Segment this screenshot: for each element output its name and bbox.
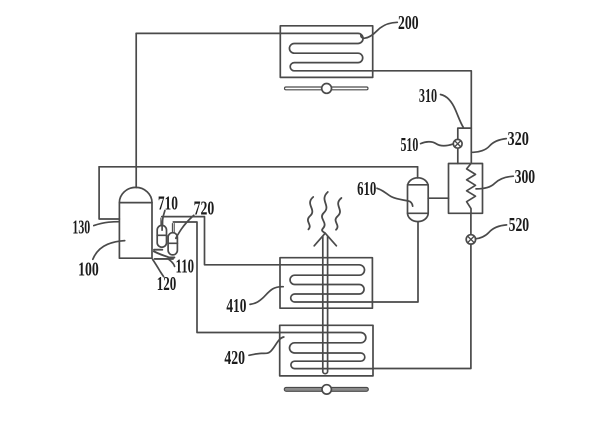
condenser coil 200 box xyxy=(280,26,372,78)
label 130 leader xyxy=(94,222,119,226)
svg-text:130: 130 xyxy=(72,217,90,238)
label 610 leader xyxy=(377,188,413,206)
fan bar under coil 420 xyxy=(284,387,368,391)
evaporator coil 420 box xyxy=(280,325,373,376)
wire mid horizontal from left branch to accumulator 610 top xyxy=(99,166,418,168)
fan hub circle under coil 420 xyxy=(322,385,331,394)
evaporator coil 410 serpentine xyxy=(280,265,372,302)
oil separator 710 vessel xyxy=(157,225,166,247)
label 410 leader xyxy=(250,287,283,305)
svg-text:300: 300 xyxy=(515,167,536,188)
wire accumulator 610 right port to exchanger 300 xyxy=(428,197,448,199)
oil separator 720 vessel xyxy=(168,233,177,255)
wire from 720 to coil 420 inlet xyxy=(173,222,279,333)
heat squiggle left xyxy=(308,197,313,229)
label 510 leader xyxy=(421,142,454,146)
wire top horizontal into coil 200 xyxy=(136,32,280,34)
wire left drop to tank port 130 xyxy=(99,167,119,219)
wire branch 310 with bypass to valve 510 xyxy=(458,128,472,163)
oil separator 720 neck xyxy=(172,224,174,234)
label 100 leader xyxy=(93,241,125,260)
evaporator coil 410 box xyxy=(280,258,372,309)
label 320 leader xyxy=(473,139,507,153)
label 110 leader xyxy=(168,259,174,267)
svg-text:720: 720 xyxy=(194,199,215,220)
wire from 710 to coil 410 inlet xyxy=(162,217,280,265)
svg-text:420: 420 xyxy=(224,348,245,369)
chimney duct through coils xyxy=(323,237,328,374)
svg-text:100: 100 xyxy=(78,259,99,280)
svg-text:510: 510 xyxy=(400,135,418,156)
svg-text:120: 120 xyxy=(157,274,177,295)
compressor tank 100 body xyxy=(119,203,152,259)
svg-text:110: 110 xyxy=(176,257,195,278)
label 720 leader xyxy=(176,215,194,238)
wire accumulator 610 bottom down then left to coil 410 xyxy=(372,222,418,302)
svg-text:320: 320 xyxy=(508,129,529,150)
svg-text:710: 710 xyxy=(158,194,178,215)
accumulator 610 vessel xyxy=(408,178,429,222)
wire drop into accumulator 610 top xyxy=(417,167,419,178)
svg-text:610: 610 xyxy=(357,179,376,200)
label 300 leader xyxy=(476,176,513,189)
svg-text:200: 200 xyxy=(398,13,419,34)
drain tray under separators xyxy=(154,250,175,259)
valve 520 xyxy=(466,235,475,244)
fan hub circle under coil 200 xyxy=(322,84,332,94)
svg-text:410: 410 xyxy=(226,296,246,317)
valve 510 xyxy=(453,139,462,148)
heat squiggle right xyxy=(336,198,342,230)
svg-text:310: 310 xyxy=(419,86,437,107)
label 520 leader xyxy=(475,225,506,239)
wire exchanger 300 outlet down through valve 520 xyxy=(373,213,471,368)
heat squiggle middle xyxy=(322,192,328,233)
label 710 leader xyxy=(162,211,165,231)
evaporator coil 420 serpentine xyxy=(280,333,373,369)
heat exchanger 300 box xyxy=(449,164,483,214)
wire left vertical from coil 200 entry down to tank dome apex xyxy=(135,33,137,187)
label 200 leader xyxy=(361,22,397,38)
fan bar under coil 200 xyxy=(285,87,369,90)
wire coil 200 outlet to right then down to exchanger 300 xyxy=(373,71,472,164)
heat exchanger 300 zigzag element xyxy=(467,164,476,214)
condenser coil 200 serpentine xyxy=(280,33,372,70)
compressor tank 100 dome xyxy=(119,187,152,202)
svg-text:520: 520 xyxy=(509,215,530,236)
label 420 leader xyxy=(249,337,284,355)
label 310 leader xyxy=(441,95,464,128)
chimney arrowhead xyxy=(314,233,336,246)
oil separator 710 neck xyxy=(161,218,163,226)
label 120 leader xyxy=(153,259,164,276)
